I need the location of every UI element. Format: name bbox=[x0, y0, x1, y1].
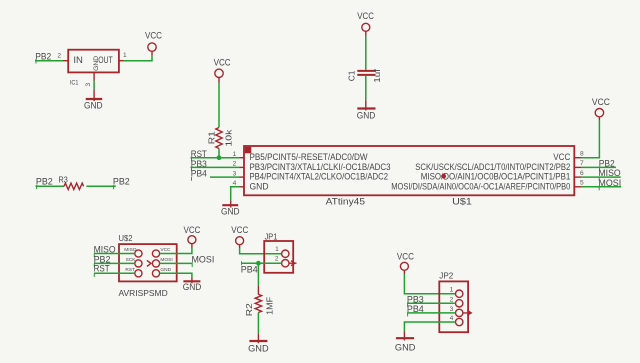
wire PB2 to R3 bbox=[36, 185, 65, 187]
wire pin5 MOSI bbox=[581, 186, 621, 188]
pin 1 pad bbox=[282, 250, 289, 257]
svg-text:RST: RST bbox=[125, 267, 135, 273]
ground GND (C1) bbox=[357, 100, 376, 120]
resistor R2 bbox=[245, 294, 275, 316]
wire junction down to R2 bbox=[257, 263, 259, 285]
wire PB4 bbox=[210, 176, 240, 178]
net label MOSI (pin5) bbox=[598, 178, 621, 191]
svg-text:1: 1 bbox=[233, 151, 237, 158]
svg-text:VCC: VCC bbox=[160, 247, 171, 253]
pad GND bbox=[152, 270, 159, 277]
svg-text:1: 1 bbox=[123, 52, 127, 59]
svg-text:PB3/PCINT3/XTAL1/CLKI/-OC1B/AD: PB3/PCINT3/XTAL1/CLKI/-OC1B/ADC3 bbox=[250, 162, 391, 172]
wire R1 to RST net bbox=[218, 149, 220, 158]
supply VCC (C1) bbox=[357, 11, 374, 31]
pin numbers right bbox=[580, 151, 584, 187]
net label MOSI (U$2) bbox=[192, 254, 215, 267]
svg-text:PB4/PCINT4/XTAL2/CLKO/OC1B/ADC: PB4/PCINT4/XTAL2/CLKO/OC1B/ADC2 bbox=[250, 172, 389, 182]
ground GND (JP2) bbox=[395, 332, 416, 353]
net label PB4 bbox=[191, 169, 207, 181]
svg-text:4: 4 bbox=[450, 315, 454, 322]
svg-text:MISO: MISO bbox=[124, 247, 137, 253]
pad SCK bbox=[135, 260, 142, 267]
svg-text:3: 3 bbox=[233, 170, 237, 177]
connector JP2 box bbox=[439, 281, 468, 332]
IC1 pin 1 stub bbox=[119, 60, 124, 62]
svg-text:VCC: VCC bbox=[592, 97, 611, 107]
svg-text:IC1: IC1 bbox=[70, 80, 79, 87]
arrow marker pin3 bbox=[463, 311, 471, 316]
ground GND (U$1 pin4) bbox=[221, 200, 240, 216]
svg-text:GND: GND bbox=[93, 56, 100, 71]
svg-text:VCC: VCC bbox=[231, 225, 249, 235]
pin stubs left bbox=[240, 158, 245, 187]
arrow marker pin2 bbox=[289, 261, 297, 266]
svg-text:PB4: PB4 bbox=[241, 265, 258, 275]
net label PB4 (JP1) bbox=[241, 261, 258, 274]
svg-text:R3: R3 bbox=[59, 176, 69, 185]
wire pad VCC to supply bbox=[160, 248, 192, 254]
supply VCC pin stub bbox=[151, 51, 153, 55]
pad VCC bbox=[152, 250, 159, 257]
junction PB4 bbox=[256, 261, 261, 266]
IC1 pin 2 stub bbox=[63, 60, 68, 62]
ground GND (U$2) bbox=[183, 278, 202, 293]
resistor R1 bbox=[208, 128, 234, 149]
wire pin7 PB2 bbox=[581, 166, 616, 168]
svg-text:VCC: VCC bbox=[145, 31, 163, 41]
supply VCC (JP2) bbox=[397, 252, 415, 271]
svg-text:2: 2 bbox=[233, 161, 237, 168]
pin 3 pad bbox=[456, 309, 463, 316]
svg-text:3: 3 bbox=[85, 83, 92, 87]
svg-text:GND: GND bbox=[357, 110, 376, 120]
svg-text:PB4: PB4 bbox=[191, 169, 207, 179]
svg-text:1uf: 1uf bbox=[373, 68, 382, 82]
svg-text:GND: GND bbox=[183, 282, 202, 292]
wire VCC to C1 bbox=[365, 36, 367, 70]
IC1 pin 3 stub bbox=[93, 72, 95, 80]
svg-text:R1: R1 bbox=[208, 131, 217, 145]
pad RST bbox=[135, 270, 142, 277]
wire PB4 to pin3 bbox=[407, 312, 456, 314]
svg-text:1MF: 1MF bbox=[266, 297, 275, 315]
junction RST net bbox=[217, 155, 222, 160]
svg-text:2: 2 bbox=[450, 296, 454, 303]
svg-text:VCC: VCC bbox=[184, 225, 202, 235]
capacitor C1 bbox=[348, 68, 383, 82]
svg-text:10k: 10k bbox=[225, 128, 234, 146]
wire pin6 MISO bbox=[581, 176, 621, 178]
svg-text:GND: GND bbox=[250, 181, 269, 191]
wire C1 to GND bbox=[365, 76, 367, 100]
wire pad MOSI to label bbox=[160, 262, 193, 264]
svg-text:2: 2 bbox=[57, 53, 61, 60]
supply VCC (R1) bbox=[214, 58, 232, 78]
svg-text:VCC: VCC bbox=[214, 58, 232, 68]
net label PB2 bbox=[35, 52, 51, 64]
pin 2 pad bbox=[456, 300, 463, 307]
arrow marker SCK bbox=[147, 260, 151, 266]
net label RST (U$2) bbox=[94, 263, 111, 276]
svg-text:PB2: PB2 bbox=[113, 176, 130, 186]
svg-text:MOSI: MOSI bbox=[160, 257, 172, 263]
svg-text:PB5/PCINT5/-RESET/ADC0/DW: PB5/PCINT5/-RESET/ADC0/DW bbox=[250, 152, 368, 162]
net label PB3 (JP2) bbox=[407, 294, 424, 307]
pin stubs right bbox=[574, 158, 581, 187]
connector U$2 box bbox=[119, 244, 177, 281]
net label RST bbox=[191, 149, 208, 161]
pin numbers left bbox=[233, 151, 237, 187]
net label PB3 bbox=[191, 159, 207, 171]
net label PB4 (JP2) bbox=[407, 304, 424, 317]
wire pin4 to GND bbox=[404, 322, 455, 332]
svg-text:GND: GND bbox=[395, 343, 416, 353]
ground GND (IC1) bbox=[84, 90, 103, 111]
svg-text:VCC: VCC bbox=[553, 152, 570, 162]
R2 pin stub bbox=[257, 286, 259, 295]
svg-text:1: 1 bbox=[450, 287, 454, 294]
supply VCC (U$1 pin8) bbox=[592, 97, 611, 117]
svg-text:GND: GND bbox=[221, 206, 240, 216]
svg-text:R2: R2 bbox=[245, 303, 254, 317]
wire VCC to JP2 pin1 bbox=[404, 274, 455, 294]
svg-text:MOSI: MOSI bbox=[192, 254, 215, 264]
svg-text:PB2: PB2 bbox=[36, 176, 53, 186]
svg-text:C1: C1 bbox=[348, 70, 357, 81]
wire PB3 bbox=[191, 166, 240, 168]
svg-text:5: 5 bbox=[580, 180, 584, 187]
wire R3 to PB2 bbox=[86, 185, 115, 187]
net label MISO (U$2) bbox=[94, 245, 116, 257]
svg-text:U$2: U$2 bbox=[119, 234, 133, 243]
svg-text:SCK/USCK/SCL/ADC1/T0/INT0/PCIN: SCK/USCK/SCL/ADC1/T0/INT0/PCINT2/PB2 bbox=[415, 162, 570, 172]
svg-text:IN: IN bbox=[73, 55, 83, 65]
supply VCC (IC1 out) bbox=[145, 31, 163, 52]
VCC pin stub bbox=[191, 244, 193, 248]
svg-text:8: 8 bbox=[580, 151, 584, 158]
net label PB2 (U$2) bbox=[94, 254, 111, 267]
wire PB4 net to pin2 bbox=[242, 262, 282, 264]
wire RST bbox=[191, 157, 240, 159]
wire MISO to pad bbox=[94, 253, 135, 255]
net label MISO (pin6) bbox=[598, 168, 620, 181]
wire pin8 to VCC bbox=[581, 120, 599, 157]
VCC pin stub bbox=[239, 245, 241, 248]
wire R2 to GND bbox=[257, 313, 259, 335]
pin 2 pad bbox=[282, 260, 289, 267]
stray junction dot bbox=[441, 174, 446, 179]
wire VCC to JP1 pin1 bbox=[240, 248, 282, 254]
pin 4 pad bbox=[456, 318, 463, 325]
net label PB2 (pin7) bbox=[599, 158, 615, 171]
connector JP1 box bbox=[264, 241, 293, 273]
svg-text:7: 7 bbox=[580, 160, 584, 167]
svg-text:GND: GND bbox=[160, 267, 171, 273]
svg-text:AVRISPSMD: AVRISPSMD bbox=[119, 289, 168, 298]
corner mark bbox=[245, 147, 252, 154]
svg-text:VCC: VCC bbox=[357, 11, 374, 21]
VCC pin stub bbox=[365, 31, 367, 35]
pad MISO bbox=[135, 250, 142, 257]
svg-text:1: 1 bbox=[275, 246, 279, 253]
net label PB2 (R3 right) bbox=[113, 176, 130, 189]
IC U$1 box bbox=[244, 146, 574, 195]
VCC pin stub bbox=[403, 270, 405, 274]
supply VCC pin stub bbox=[598, 117, 600, 120]
svg-text:PB2: PB2 bbox=[599, 158, 615, 168]
wire IC1 OUT to VCC bbox=[124, 55, 153, 61]
wire PB2 to pad SCK bbox=[94, 262, 135, 264]
wire RST to pad bbox=[94, 272, 135, 274]
wire IC1 GND down bbox=[93, 81, 95, 90]
wire pad GND down bbox=[160, 273, 192, 277]
wire PB3 to pin2 bbox=[407, 302, 456, 304]
svg-text:GND: GND bbox=[248, 343, 269, 353]
wire pin4 GND bbox=[231, 187, 240, 201]
svg-text:3: 3 bbox=[450, 306, 454, 313]
VCC pin stub bbox=[218, 78, 220, 83]
svg-text:VCC: VCC bbox=[397, 252, 415, 262]
svg-text:ATtiny45: ATtiny45 bbox=[326, 197, 365, 207]
ground GND (R2) bbox=[248, 334, 269, 353]
wire PB2 to IC1 IN bbox=[35, 60, 63, 62]
svg-text:GND: GND bbox=[84, 101, 103, 111]
svg-text:U$1: U$1 bbox=[452, 197, 472, 207]
supply VCC (U$2) bbox=[184, 225, 202, 244]
svg-text:6: 6 bbox=[580, 170, 584, 177]
net label PB2 (R3 left) bbox=[36, 176, 53, 189]
resistor R3 bbox=[59, 176, 84, 190]
svg-text:MOSI/DI/SDA/AIN0/OC0A/-OC1A/AR: MOSI/DI/SDA/AIN0/OC0A/-OC1A/AREF/PCINT0/… bbox=[391, 181, 570, 191]
svg-text:MOSI: MOSI bbox=[598, 178, 621, 188]
svg-text:OUT: OUT bbox=[98, 55, 113, 65]
svg-text:RST: RST bbox=[94, 263, 111, 273]
svg-text:JP2: JP2 bbox=[439, 272, 453, 281]
svg-text:MISO: MISO bbox=[598, 168, 620, 178]
svg-text:SCK: SCK bbox=[126, 257, 137, 263]
pad MOSI bbox=[152, 260, 159, 267]
pin 1 pad bbox=[456, 290, 463, 297]
voltage regulator IC1 box bbox=[68, 50, 119, 73]
supply VCC (JP1) bbox=[231, 225, 249, 245]
wire VCC to R1 bbox=[218, 83, 220, 128]
svg-text:2: 2 bbox=[275, 255, 279, 262]
